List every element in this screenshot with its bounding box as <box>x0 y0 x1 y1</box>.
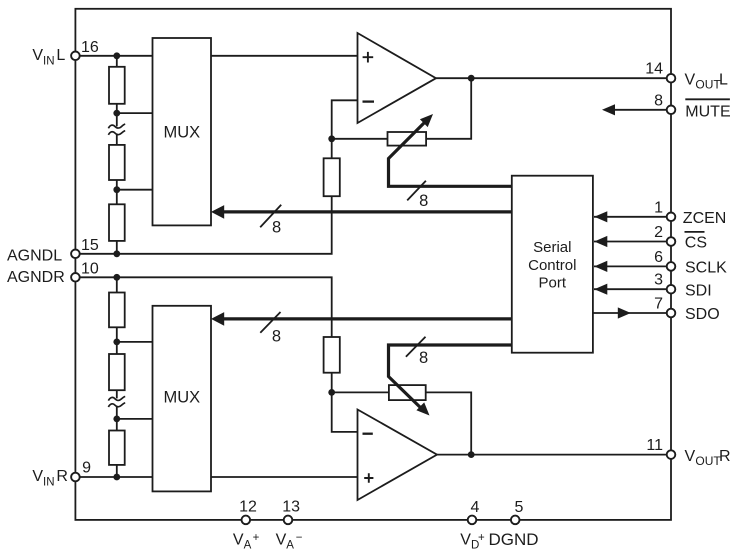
svg-text:CS: CS <box>685 235 707 252</box>
svg-text:3: 3 <box>654 272 663 289</box>
svg-text:V: V <box>32 47 43 64</box>
svg-text:13: 13 <box>282 498 300 515</box>
svg-text:SDO: SDO <box>685 306 720 323</box>
svg-text:Port: Port <box>539 275 567 292</box>
svg-text:IN: IN <box>43 55 55 67</box>
svg-text:MUTE: MUTE <box>685 104 730 121</box>
svg-text:8: 8 <box>654 92 663 109</box>
svg-text:V: V <box>233 532 244 549</box>
svg-text:R: R <box>56 468 68 485</box>
svg-text:L: L <box>56 47 65 64</box>
svg-text:−: − <box>296 532 303 544</box>
svg-text:V: V <box>460 532 471 549</box>
svg-text:V: V <box>685 448 696 465</box>
svg-text:4: 4 <box>470 499 479 516</box>
svg-text:8: 8 <box>419 192 428 210</box>
svg-text:6: 6 <box>654 249 663 266</box>
svg-text:12: 12 <box>239 498 257 515</box>
svg-text:R: R <box>719 448 731 465</box>
svg-text:1: 1 <box>654 199 663 216</box>
svg-text:8: 8 <box>272 219 281 237</box>
svg-text:8: 8 <box>419 349 428 367</box>
svg-text:AGNDR: AGNDR <box>7 269 65 286</box>
svg-text:8: 8 <box>272 327 281 345</box>
svg-text:DGND: DGND <box>489 530 539 549</box>
svg-text:9: 9 <box>82 460 91 477</box>
svg-text:14: 14 <box>645 61 663 78</box>
svg-text:MUX: MUX <box>163 389 200 407</box>
svg-text:10: 10 <box>81 261 99 278</box>
svg-text:SDI: SDI <box>685 282 712 299</box>
svg-text:V: V <box>32 468 43 485</box>
svg-text:+: + <box>478 532 485 544</box>
svg-text:MUX: MUX <box>163 124 200 142</box>
svg-text:ZCEN: ZCEN <box>683 210 727 227</box>
svg-text:L: L <box>719 72 728 89</box>
svg-text:V: V <box>276 532 287 549</box>
svg-text:Serial: Serial <box>533 239 571 256</box>
svg-text:Control: Control <box>528 257 576 274</box>
svg-text:5: 5 <box>514 499 523 516</box>
svg-text:15: 15 <box>81 237 99 254</box>
svg-text:OUT: OUT <box>695 454 721 468</box>
svg-text:+: + <box>253 532 260 544</box>
svg-text:SCLK: SCLK <box>685 260 727 277</box>
svg-text:7: 7 <box>654 296 663 313</box>
svg-text:2: 2 <box>654 224 663 241</box>
svg-text:AGNDL: AGNDL <box>7 247 62 264</box>
svg-text:A: A <box>244 540 252 552</box>
svg-text:OUT: OUT <box>695 78 721 92</box>
svg-text:A: A <box>286 540 294 552</box>
svg-text:IN: IN <box>43 477 55 489</box>
svg-text:11: 11 <box>646 437 663 454</box>
svg-text:16: 16 <box>81 39 99 56</box>
svg-text:V: V <box>685 72 696 89</box>
